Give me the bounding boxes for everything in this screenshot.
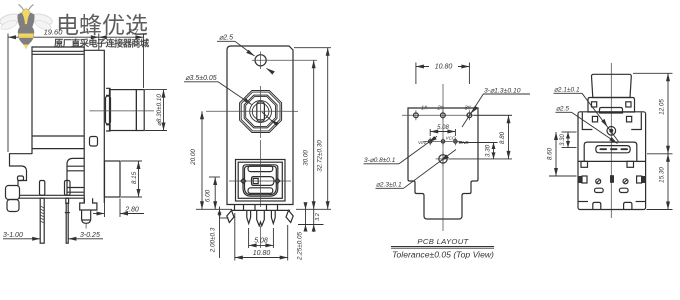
svg-text:3.30: 3.30 [560, 134, 566, 146]
svg-text:5.08: 5.08 [254, 238, 268, 245]
body outline [227, 46, 293, 205]
pin target [607, 127, 616, 136]
svg-text:3.2: 3.2 [315, 213, 321, 221]
angled feet [227, 210, 234, 222]
svg-text:20.00: 20.00 [190, 149, 197, 166]
svg-text:3-⌀1.3±0.10: 3-⌀1.3±0.10 [484, 88, 521, 95]
svg-text:3-0.25: 3-0.25 [80, 232, 100, 239]
svg-text:8.60: 8.60 [547, 147, 554, 160]
edge dark rects [578, 176, 582, 183]
step line [578, 160, 646, 162]
svg-text:2#: 2# [437, 106, 445, 112]
lens slot [596, 146, 630, 153]
tier2 [588, 98, 635, 113]
centerline [90, 110, 155, 112]
dim 3.30 left [562, 131, 577, 133]
svg-text:1#: 1# [421, 106, 428, 112]
dim 8.15 [121, 160, 142, 162]
body main block [32, 47, 84, 154]
dim 5.08 [429, 129, 431, 136]
right piece [105, 161, 121, 197]
dim 2.80 [104, 199, 106, 218]
svg-text:3.30: 3.30 [485, 144, 492, 157]
outline [408, 108, 478, 219]
svg-text:2.80: 2.80 [124, 207, 139, 214]
top slot [248, 166, 273, 172]
svg-text:⌀2.5: ⌀2.5 [556, 106, 569, 113]
shelf double line [19, 194, 84, 196]
svg-text:30.00: 30.00 [303, 150, 310, 166]
svg-text:3#: 3# [465, 106, 472, 112]
small holes VIN VCC GND [429, 140, 432, 143]
bottom slot [248, 188, 273, 194]
dim 3.30 right [459, 142, 498, 144]
svg-text:⌀8.30±0.10: ⌀8.30±0.10 [156, 94, 163, 126]
dim 2.00 [219, 207, 221, 259]
small latch hole [90, 137, 98, 147]
centerline vertical [442, 84, 444, 231]
small dim 3.2 [305, 203, 307, 231]
svg-text:PCB LAYOUT: PCB LAYOUT [417, 237, 469, 246]
dim 8.60 left [549, 175, 577, 177]
dim 19.60 / 7.7 top line [8, 36, 144, 38]
dim 8.30 [145, 89, 167, 91]
flange row [231, 209, 290, 211]
inner frame corners [582, 113, 592, 130]
rear hook [10, 154, 33, 186]
feet notches [593, 202, 601, 209]
dim 10.80 top [415, 63, 417, 85]
row line [402, 114, 512, 116]
barrel [110, 90, 136, 131]
pin 2 [66, 198, 69, 203]
side diamonds [241, 179, 246, 184]
pin holder [6, 186, 20, 200]
svg-text:8.15: 8.15 [131, 171, 138, 184]
leg brackets [40, 181, 45, 196]
toslink inner [243, 165, 278, 196]
svg-text:8.80: 8.80 [499, 131, 506, 144]
extension lines [7, 34, 9, 153]
face flange [109, 89, 111, 132]
dim 15.30 right [647, 209, 673, 211]
top block [592, 74, 632, 97]
svg-text:6.00: 6.00 [205, 189, 212, 202]
dim 10.80 [234, 213, 236, 261]
svg-text:3-⌀0.8±0.1: 3-⌀0.8±0.1 [364, 157, 396, 164]
right dims 30.00 / 32.72 [294, 47, 331, 49]
mid key bar [252, 177, 275, 186]
bottom corner stubs [578, 201, 588, 203]
internal body lines [32, 135, 84, 137]
octagon lens rings [240, 91, 282, 133]
lower boot [67, 158, 84, 196]
svg-text:10.80: 10.80 [435, 64, 453, 71]
svg-text:原厂直采电子连接器商城: 原厂直采电子连接器商城 [54, 38, 150, 49]
svg-text:⌀2.1±0.1: ⌀2.1±0.1 [554, 87, 580, 94]
pins [247, 210, 251, 223]
main body [578, 112, 646, 210]
centerline [610, 63, 612, 218]
upper small rects below step [581, 161, 588, 167]
inner panel [584, 142, 637, 161]
svg-text:2.25±0.05: 2.25±0.05 [297, 232, 304, 261]
svg-text:10.80: 10.80 [253, 250, 271, 257]
svg-text:⌀2.3±0.1: ⌀2.3±0.1 [376, 182, 402, 189]
svg-text:Tolerance±0.05 (Top View): Tolerance±0.05 (Top View) [392, 250, 494, 260]
svg-text:3-1.00: 3-1.00 [3, 232, 23, 239]
bee logo [0, 5, 53, 50]
front housing [84, 50, 104, 203]
top circle 2.5 [255, 55, 266, 66]
holes 1# 2# 3# [414, 113, 419, 118]
dim 8.80 right [474, 114, 512, 116]
svg-text:VIN: VIN [418, 140, 426, 145]
center black square [610, 175, 614, 183]
svg-text:电蜂优选: 电蜂优选 [56, 12, 148, 38]
left dims 20.00 / 6.00 [196, 208, 232, 210]
svg-text:12.05: 12.05 [659, 99, 666, 115]
svg-text:⌀2.5: ⌀2.5 [219, 35, 233, 42]
center hole 2.3 [439, 155, 447, 163]
svg-text:⌀3.5±0.05: ⌀3.5±0.05 [185, 75, 217, 82]
svg-text:VCC: VCC [446, 136, 456, 141]
pin 1 hatched [40, 198, 44, 243]
svg-text:15.30: 15.30 [659, 167, 666, 183]
bullet pin [80, 198, 97, 210]
screw circles [596, 179, 601, 184]
dim 5.08 [248, 228, 250, 248]
socket box [236, 160, 286, 202]
small slots [595, 188, 604, 192]
dim 12.05 right [633, 72, 673, 74]
centerlines [259, 140, 261, 207]
svg-text:32.72±0.30: 32.72±0.30 [317, 140, 324, 172]
svg-text:2.00±0.3: 2.00±0.3 [210, 227, 217, 253]
svg-text:5.08: 5.08 [437, 125, 449, 131]
